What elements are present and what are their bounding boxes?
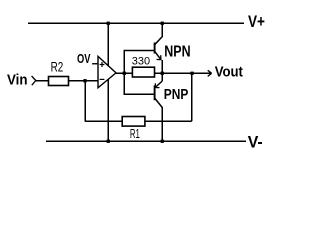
transistor NPN bbox=[155, 23, 163, 73]
transistor PNP bbox=[155, 73, 163, 141]
Vin input terminal bbox=[32, 76, 36, 85]
V- rail bbox=[46, 140, 246, 142]
wire R1 to feedback riser bbox=[145, 120, 192, 122]
V+ rail bbox=[28, 22, 244, 24]
non-inverting input stub bbox=[92, 63, 98, 65]
wire feedback riser bbox=[191, 73, 193, 121]
resistor R1 bbox=[122, 117, 145, 127]
svg-text:OV: OV bbox=[77, 51, 91, 66]
svg-text:330: 330 bbox=[132, 56, 150, 68]
wire V- power from op-amp bbox=[107, 79, 109, 141]
op-amp U1 bbox=[98, 56, 116, 88]
node at inverting input bbox=[83, 79, 86, 82]
svg-text:V+: V+ bbox=[248, 13, 265, 31]
wire op-amp output bbox=[116, 72, 124, 74]
plus sign bbox=[100, 62, 105, 67]
svg-text:Vin: Vin bbox=[7, 73, 28, 89]
node NPN collector on V+ rail bbox=[161, 22, 164, 25]
svg-text:R2: R2 bbox=[51, 60, 64, 75]
resistor R2 bbox=[49, 77, 69, 86]
wire output to PNP base bbox=[124, 73, 154, 94]
node emitter junction bbox=[161, 72, 164, 75]
wire 330 to emitter node bbox=[155, 72, 163, 74]
wire V+ power to op-amp bbox=[107, 23, 109, 65]
svg-text:NPN: NPN bbox=[164, 43, 190, 60]
wire R2 to op-amp inverting input bbox=[69, 80, 99, 82]
wire output to NPN base bbox=[124, 51, 154, 74]
svg-text:PNP: PNP bbox=[164, 87, 189, 103]
wire to R1 bbox=[85, 120, 122, 122]
node Vout bbox=[190, 72, 193, 75]
node PNP collector on V- rail bbox=[161, 140, 164, 143]
svg-text:Vout: Vout bbox=[215, 64, 243, 81]
node at op-amp output bbox=[123, 72, 126, 75]
minus sign bbox=[100, 78, 105, 80]
svg-text:R1: R1 bbox=[130, 126, 140, 141]
wire feedback drop bbox=[84, 81, 86, 122]
svg-text:V-: V- bbox=[248, 133, 263, 151]
resistor 330 bbox=[132, 67, 154, 77]
node on V- rail bbox=[107, 140, 110, 143]
wire Vout arrow bbox=[192, 72, 211, 74]
wire Vin to R2 bbox=[36, 80, 49, 82]
node on V+ rail bbox=[107, 22, 110, 25]
wire output to 330 resistor bbox=[124, 72, 132, 74]
wire emitter node to Vout bbox=[162, 72, 192, 74]
